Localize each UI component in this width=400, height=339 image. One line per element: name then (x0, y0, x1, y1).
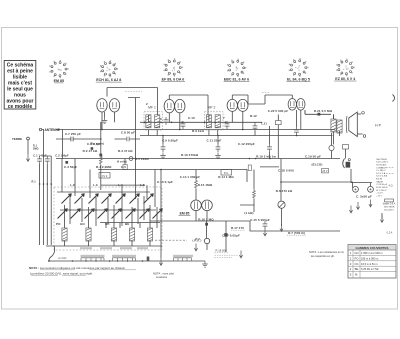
grid coupling C7 to V1 (100, 122, 102, 130)
svg-text:C.10: C.10 (188, 116, 195, 120)
svg-text:110-245 V: 110-245 V (384, 209, 394, 211)
output transformer OT primary (331, 119, 336, 132)
svg-text:H P: H P (375, 124, 382, 128)
triode-heptode V1 ECH81 (97, 99, 120, 112)
svg-text:C.5: C.5 (121, 165, 126, 169)
svg-text:OC: OC (105, 222, 110, 226)
svg-text:NOTA : Les tensions indiquées: NOTA : Les tensions indiquées ont été me… (29, 266, 125, 270)
wire: AVC bus (140, 121, 262, 123)
svg-text:R.3 47 kΩ: R.3 47 kΩ (118, 149, 133, 153)
wire: filament line (56, 129, 335, 131)
svg-text:R.12: R.12 (250, 114, 257, 118)
output transformer OT secondary (337, 120, 342, 133)
detector V3 EBC81 (227, 99, 248, 111)
svg-text:R.19 2 kΩ 1w: R.19 2 kΩ 1w (256, 154, 276, 158)
tube socket diagram EF 89, 6 DA 6 (161, 58, 185, 81)
svg-text:VALVE: VALVE (376, 180, 383, 183)
svg-text:16,5 m à 51 m: 16,5 m à 51 m (361, 262, 378, 266)
svg-text:185 m à 580 m: 185 m à 580 m (361, 256, 378, 260)
cathode circle (329, 145, 334, 150)
resistor R15 1M (195, 179, 198, 189)
speaker HP cone (346, 112, 357, 137)
ground: C9 (160, 153, 166, 159)
wire: tuner risers (62, 159, 155, 208)
dial lamp on heater line (129, 157, 133, 161)
magic eye EM85 (179, 200, 213, 216)
speaker terminal lower (363, 135, 366, 138)
caption box: "Ce schema est a peine lisible..." (4, 61, 36, 111)
ground arrow: PU shield (194, 244, 197, 251)
svg-text:(ELCO): (ELCO) (312, 163, 323, 167)
IF pentode V2 EF89 (164, 99, 185, 112)
wire: AF line (98, 170, 247, 183)
svg-text:C. 2x50 μF: C. 2x50 μF (356, 195, 372, 199)
svg-text:R.9 1kΩ: R.9 1kΩ (192, 129, 204, 133)
svg-text:EF 89, 6 DA 6: EF 89, 6 DA 6 (162, 77, 185, 81)
note C: resistances en ohms (309, 250, 345, 258)
svg-text:C.15 5 000pF: C.15 5 000pF (250, 218, 270, 222)
wire: B+ to filter caps (281, 182, 353, 188)
svg-text:R.2 47 kΩ: R.2 47 kΩ (83, 149, 98, 153)
svg-text:6,3 V 1,9 A: 6,3 V 1,9 A (376, 175, 387, 178)
switch index stop (147, 257, 150, 262)
capacitor: V3 bypass (225, 121, 230, 129)
svg-text:C.8 50 pF: C.8 50 pF (121, 130, 135, 134)
svg-text:EBC 81, 6 AV 6: EBC 81, 6 AV 6 (224, 78, 249, 82)
node: bus junctions (72, 260, 74, 262)
svg-text:MF 1: MF 1 (148, 105, 156, 109)
wire: V4 anode to OT (305, 110, 334, 119)
svg-text:C.12 200pF: C.12 200pF (238, 142, 255, 146)
svg-text:C.21: C.21 (261, 122, 267, 126)
svg-text:C.19 50 μF: C.19 50 μF (305, 154, 321, 158)
svg-text:R.14 1 MΩ: R.14 1 MΩ (218, 175, 234, 179)
svg-text:C.3 50pF: C.3 50pF (64, 165, 77, 169)
misc value labels (56, 102, 257, 226)
svg-text:2: 2 (146, 102, 148, 106)
IF transformer MF1 (144, 105, 163, 130)
svg-text:OC: OC (354, 262, 358, 266)
wire: volume pot feed (280, 159, 282, 202)
dash leaders to border (386, 167, 395, 173)
svg-text:110 à 245 V: 110 à 245 V (376, 162, 388, 164)
svg-text:NOTA : vues côté: NOTA : vues côté (153, 272, 174, 276)
svg-text:L.3: L.3 (93, 183, 98, 187)
wire: V3 anode jumper (232, 95, 292, 104)
label: secteur small (384, 207, 395, 212)
ground: C11 (215, 153, 221, 159)
svg-text:EL 84, 6 BQ 5: EL 84, 6 BQ 5 (287, 78, 310, 82)
svg-text:0,2 A: 0,2 A (387, 231, 393, 234)
svg-text:R.10 470kΩ: R.10 470kΩ (181, 153, 199, 157)
svg-text:COMMUT.: COMMUT. (376, 167, 387, 169)
svg-text:L.4: L.4 (118, 183, 123, 187)
mains transformer T1 (343, 159, 345, 169)
svg-text:GO: GO (80, 222, 85, 226)
svg-text:C.18 5 000: C.18 5 000 (278, 169, 294, 173)
svg-text:CV 2: CV 2 (102, 174, 108, 178)
wire: EM85 connections (196, 170, 207, 222)
node: trimmer taps (69, 209, 70, 210)
svg-text:C.7 250 pF: C.7 250 pF (65, 132, 81, 136)
svg-text:ou CAD: ou CAD (58, 257, 67, 260)
svg-text:soudures: soudures (156, 275, 168, 279)
wire: osc coil top bus (100, 223, 160, 229)
capacitor: V4 grid (294, 127, 299, 135)
wire: tuner exit curve (49, 246, 55, 261)
svg-text:BE: BE (355, 267, 359, 271)
svg-text:SECTEUR: SECTEUR (376, 159, 387, 161)
wire: coil feeds (65, 241, 151, 246)
svg-text:C.22 5 000 pF: C.22 5 000 pF (268, 109, 289, 113)
node: line junctions (162, 135, 164, 137)
note B: vues cote soudures (153, 272, 174, 280)
tube socket diagram EL 84, 6 BQ 5 (286, 58, 310, 82)
svg-text:R.18 500: R.18 500 (216, 249, 227, 253)
svg-text:ce modèle: ce modèle (8, 104, 33, 110)
svg-text:C.11 25μF: C.11 25μF (207, 138, 222, 142)
svg-text:C.16 0,1μF: C.16 0,1μF (157, 180, 173, 184)
capacitor: coupling to V4 (267, 144, 272, 152)
wire: oscillator padder column (128, 98, 140, 200)
IF transformer MF2 (205, 105, 224, 130)
dashed link above tubes (125, 91, 270, 92)
capacitor: V2 cathode bypass (164, 117, 169, 125)
capacitor C21 coupling (253, 123, 258, 131)
svg-text:25 V: 25 V (322, 170, 327, 173)
switch: mains interrupter (343, 145, 349, 150)
svg-text:EZ 80: EZ 80 (376, 179, 383, 181)
node: AVC junctions (144, 122, 227, 124)
svg-text:ECH 81, 6 AJ 8: ECH 81, 6 AJ 8 (96, 78, 121, 82)
switch wafer S1c contacts (173, 255, 193, 261)
svg-text:ANTENNE: ANTENNE (45, 128, 60, 132)
svg-text:BE: BE (125, 222, 129, 226)
node: tuner junction row (39, 183, 41, 185)
label: rectifier column values (376, 159, 388, 198)
svg-text:C.4 0,1μF: C.4 0,1μF (87, 142, 101, 146)
junction blobs (99, 154, 102, 157)
potentiometer P1 volume (278, 201, 285, 208)
svg-text:50 Hz ALT.: 50 Hz ALT. (376, 163, 387, 166)
svg-text:TERRE: TERRE (12, 137, 22, 141)
ground arrow: tone network (239, 251, 242, 258)
svg-text:R.20 150 Ω: R.20 150 Ω (376, 187, 387, 189)
svg-text:C.23 50 μF: C.23 50 μF (376, 184, 388, 186)
svg-text:(1 kΩ): (1 kΩ) (244, 211, 253, 215)
wire: AF coupling drop (160, 170, 162, 259)
svg-text:4 Ω: 4 Ω (388, 184, 392, 188)
svg-text:NOTA : Les résistances en Ω,: NOTA : Les résistances en Ω, (309, 250, 345, 254)
wire: heater tie (62, 130, 64, 159)
output pentode V4 EL84 (288, 99, 305, 111)
padder block CV2 (99, 173, 110, 179)
svg-text:L.5: L.5 (140, 183, 145, 187)
svg-text:EZ 80, 6 V 4: EZ 80, 6 V 4 (335, 77, 355, 81)
wire: EM85 bus (150, 221, 340, 231)
svg-text:C.14 1 000 pF: C.14 1 000 pF (180, 175, 201, 179)
svg-text:2MΩ: 2MΩ (33, 148, 39, 151)
coupling node blob (318, 113, 321, 116)
svg-text:R.7 (500 Ω): R.7 (500 Ω) (288, 231, 305, 235)
potentiometer P2 tone (204, 238, 209, 243)
svg-text:2 x 280 V: 2 x 280 V (376, 170, 386, 172)
svg-text:R.5 160Ω: R.5 160Ω (135, 157, 149, 161)
svg-text:R.17 470: R.17 470 (231, 226, 244, 230)
dial pointer arc (393, 95, 395, 102)
ground arrow: terre (26, 154, 29, 161)
svg-text:R.6 470 kΩ: R.6 470 kΩ (276, 189, 293, 193)
svg-text:1 050 m à 2 000 m: 1 050 m à 2 000 m (361, 251, 383, 255)
ground: V1 grid leak (102, 118, 108, 124)
svg-text:PO: PO (56, 222, 61, 226)
switch wafer S1a contacts (81, 255, 105, 262)
pickup terminal box (221, 170, 232, 176)
wire: chassis bus (49, 260, 205, 262)
wire: pot wiper to bus (281, 208, 283, 226)
band selector unit dashed enclosure (54, 187, 162, 250)
wire: V2 anode jumper (169, 95, 208, 115)
svg-text:R.15 1MΩ: R.15 1MΩ (198, 183, 213, 187)
svg-text:R.16 1 MΩ: R.16 1 MΩ (198, 217, 214, 221)
wire: coil-box bottom bus (46, 245, 162, 247)
wire: tuner inner links (57, 192, 157, 228)
wire: B- line (56, 158, 340, 160)
svg-text:fusible 0,5 A: fusible 0,5 A (383, 203, 396, 206)
wire: screen line (140, 135, 333, 137)
svg-text:L.2: L.2 (70, 183, 75, 187)
svg-text:(contrôleur 20 000 Ω/V), sans: (contrôleur 20 000 Ω/V), sans signal, to… (30, 271, 93, 275)
svg-text:7: 7 (223, 116, 225, 120)
electrolytic C20a (353, 186, 359, 192)
capacitor: V2 screen (181, 121, 186, 129)
svg-text:P.U.: P.U. (224, 171, 229, 175)
svg-text:SECTEUR: SECTEUR (384, 207, 395, 209)
svg-text:H.T. 250 V: H.T. 250 V (376, 190, 387, 192)
resistor R5 1k (253, 189, 256, 199)
svg-text:6,3 V 1 A: 6,3 V 1 A (376, 172, 385, 175)
svg-text:(4 volts): (4 volts) (117, 160, 128, 163)
wire: tone network drop (207, 221, 227, 252)
svg-text:GAMMES COUVERTES: GAMMES COUVERTES (355, 246, 388, 250)
wire: antenna into tuner (42, 130, 52, 157)
tube socket diagram EBC 81, 6 AV 6 (224, 59, 250, 82)
svg-text:MF 2: MF 2 (208, 105, 216, 109)
svg-text:R.1: R.1 (32, 180, 37, 184)
switch wafer S1b contacts (112, 255, 136, 262)
resistor R18 500 label (215, 249, 239, 258)
wire: T1 to filter (351, 169, 372, 183)
tube socket diagram EZ 80, 6 V 4 (334, 59, 356, 81)
wire: terre lead (27, 140, 29, 154)
wire: OT down (334, 131, 340, 145)
svg-text:R.21 0,5 MΩ: R.21 0,5 MΩ (314, 109, 333, 113)
trimmer row 2 (58, 209, 163, 219)
svg-text:+ H.T.: + H.T. (376, 195, 382, 197)
svg-text:C.9 0,05μF: C.9 0,05μF (162, 138, 178, 142)
svg-text:les capacités en pF.: les capacités en pF. (311, 254, 335, 258)
antenna terminal (39, 128, 41, 130)
fuse (385, 199, 394, 202)
terre terminal (27, 137, 30, 140)
wire: V1 anode jumper (107, 88, 158, 115)
node: bus dots (100, 129, 297, 160)
note A: tensions mesurees (29, 266, 136, 276)
svg-text:C.1 140pF: C.1 140pF (33, 154, 47, 158)
tube socket diagram ECH 81, 6 AJ 8 (96, 60, 122, 82)
small cap on B- left (248, 165, 251, 171)
svg-text:R.4 2,2MΩ: R.4 2,2MΩ (96, 165, 112, 169)
tube socket diagram EM 85 (49, 60, 68, 83)
ground arrows: filter (356, 202, 359, 209)
svg-text:M.: M. (355, 273, 358, 277)
bands table GAMMES COUVERTES (348, 245, 396, 279)
trimmer row 1 (62, 194, 154, 204)
electrolytic C20b (368, 186, 374, 192)
mains lead arrow (381, 213, 383, 219)
svg-text:6: 6 (160, 117, 162, 121)
svg-text:6,35 Mc à 7 Mc: 6,35 Mc à 7 Mc (361, 267, 379, 271)
oscillator coils L1-L5 (62, 228, 153, 241)
wire: tube cathode stubs (102, 110, 301, 130)
ground arrow: AF drop (159, 258, 162, 265)
svg-text:EM 85: EM 85 (54, 79, 64, 83)
svg-text:EM 85: EM 85 (180, 212, 190, 216)
dashed PU lead (155, 239, 187, 241)
wire: tuner verticals (40, 156, 52, 245)
grid resistor box (276, 121, 282, 125)
ground: chassis bus end (202, 261, 208, 267)
speaker terminal upper (362, 112, 365, 115)
svg-text:- 6,3 V -: - 6,3 V - (376, 193, 384, 195)
svg-text:( P.U. ): ( P.U. ) (193, 238, 202, 242)
wire: MF secondaries (148, 115, 217, 136)
wire: osc line segment (101, 184, 145, 186)
switch sector label strips (80, 247, 148, 249)
